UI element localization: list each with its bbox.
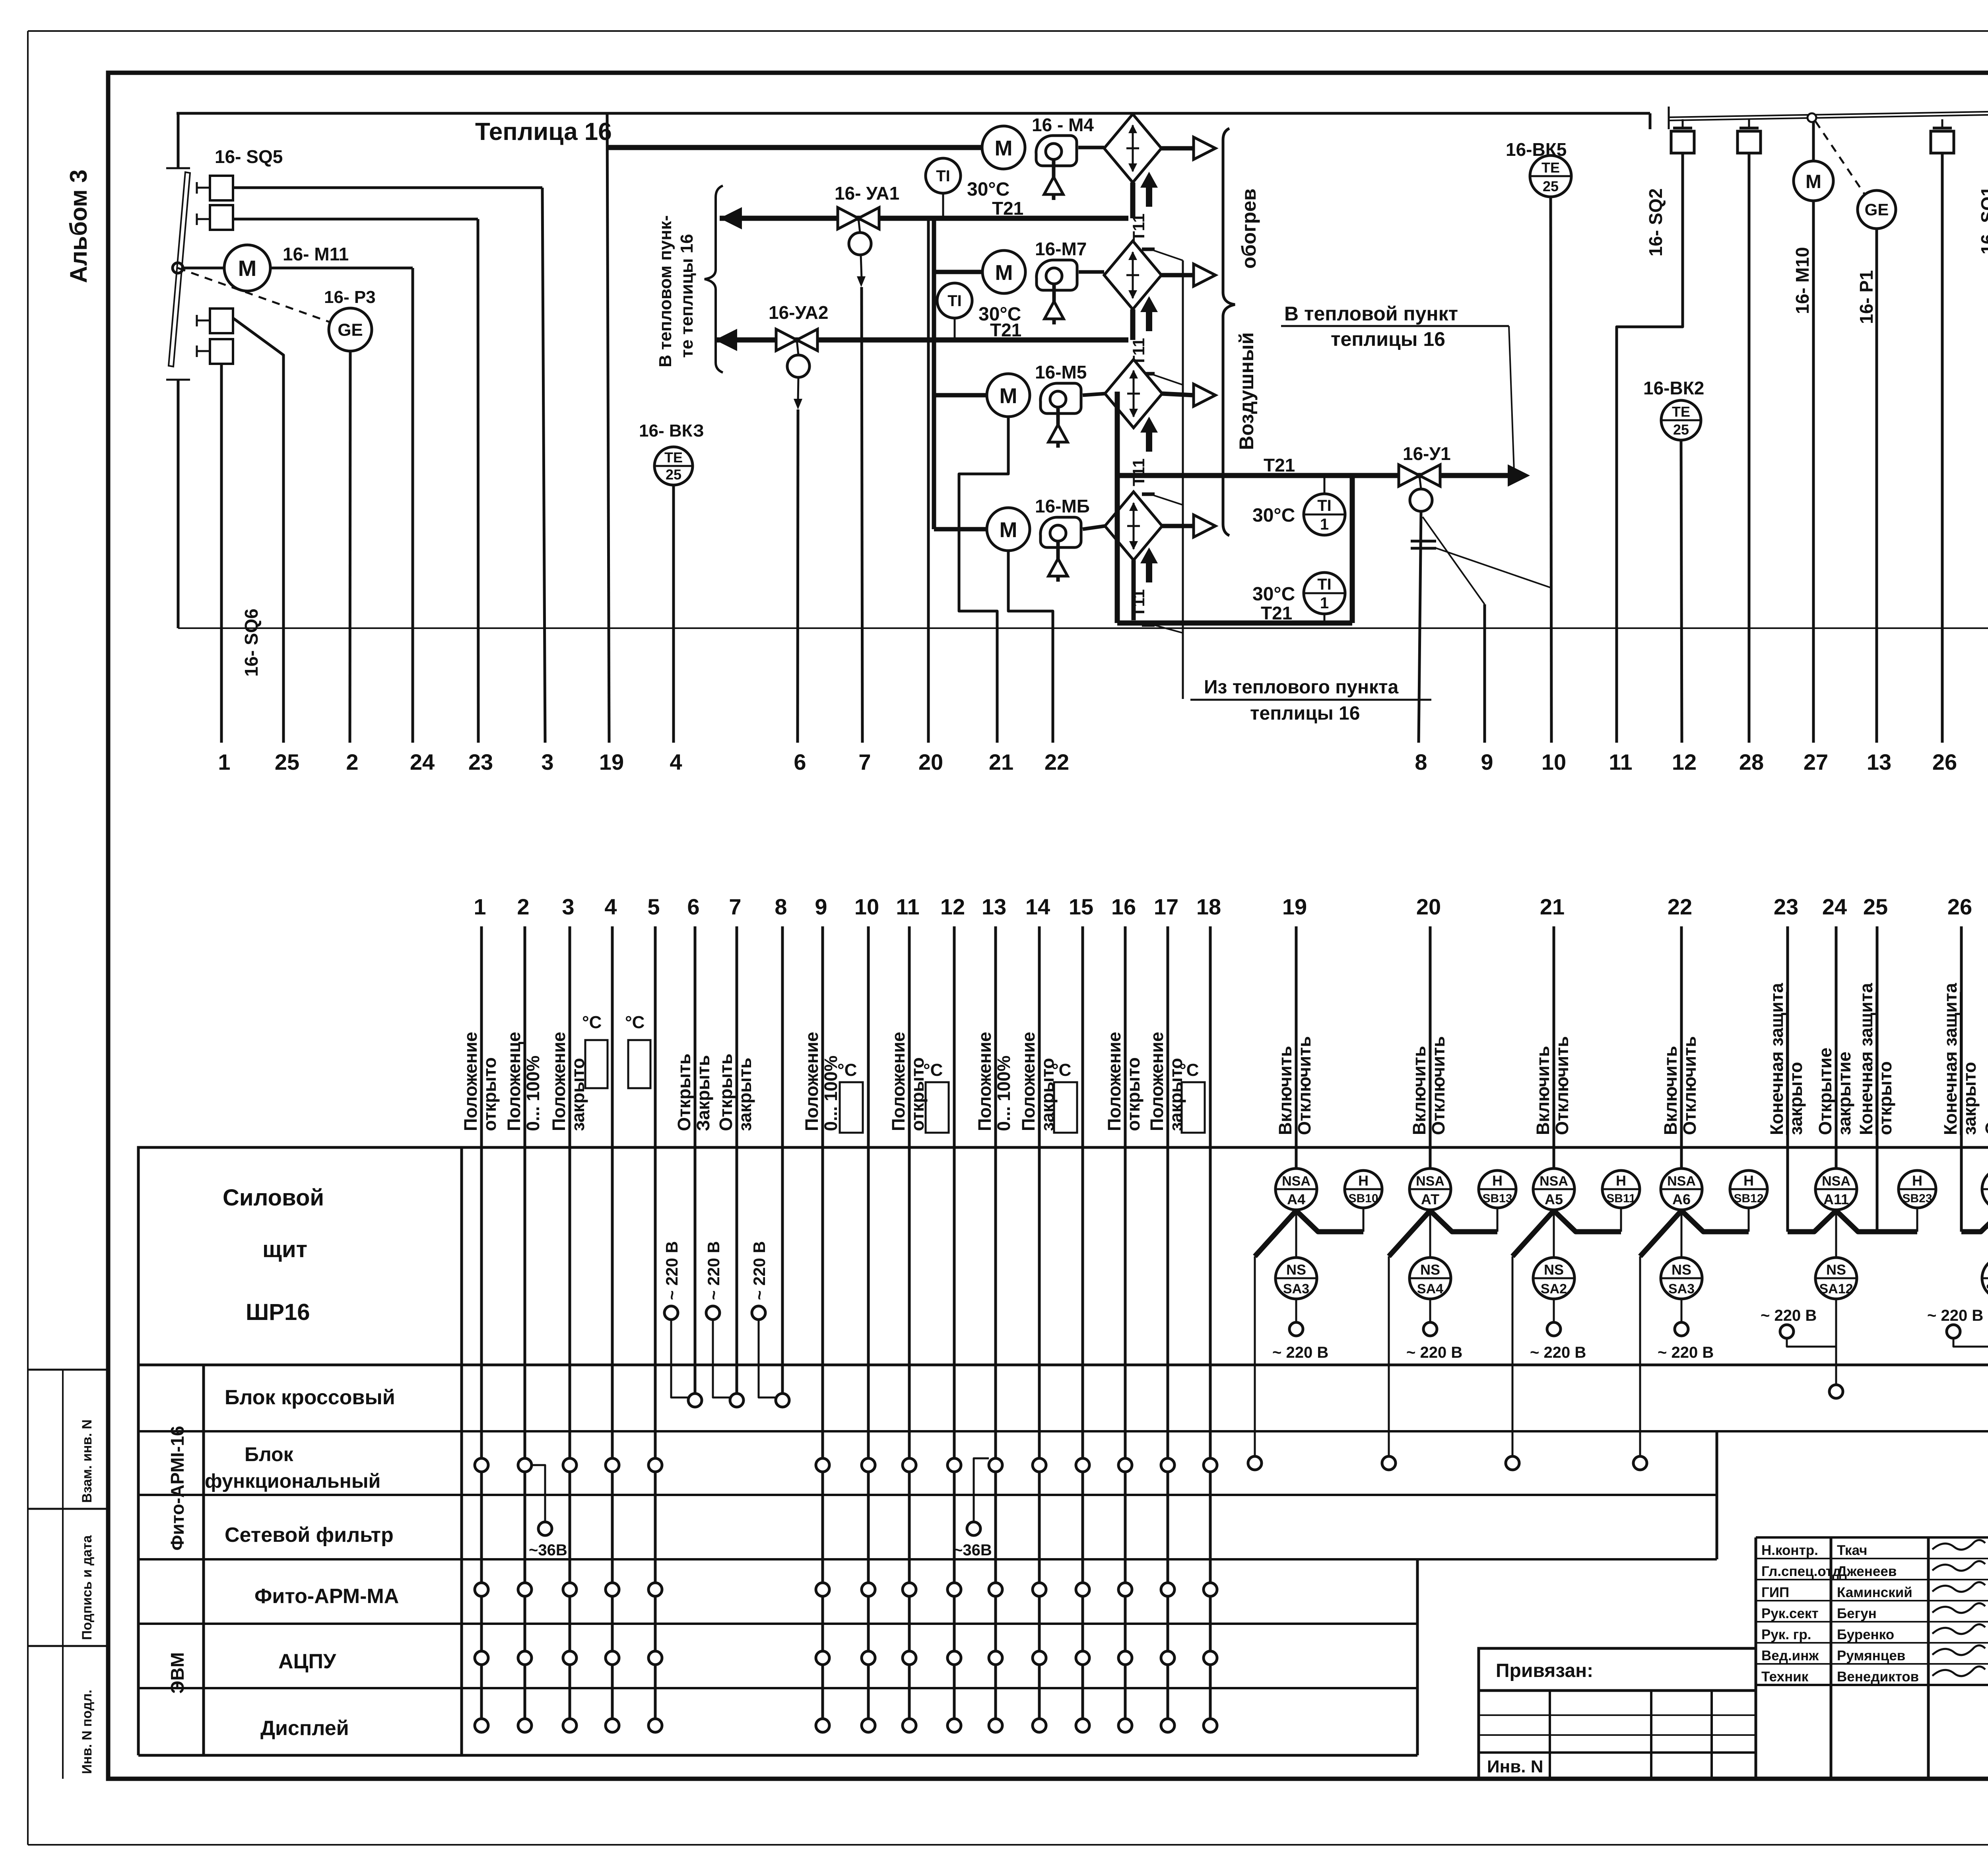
svg-text:Воздушный: Воздушный [1235, 332, 1258, 450]
contact 2 / Фито-АРМ-МА [518, 1583, 532, 1596]
link to switch NS (group 20) [1429, 1211, 1431, 1258]
svg-text:ТI: ТI [1317, 576, 1332, 593]
svg-text:4: 4 [670, 749, 682, 774]
pipe Т21 of М4 with valve УА1 [1130, 182, 1136, 218]
svg-text:Положенце: Положенце [504, 1032, 524, 1131]
contact group 24 / кроссовый [1829, 1385, 1843, 1398]
contact line 7 / кроссовый [730, 1394, 744, 1407]
svg-text:3: 3 [562, 894, 574, 919]
contact line 6 / кроссовый [688, 1394, 702, 1407]
svg-text:2: 2 [346, 749, 358, 774]
svg-text:16-М5: 16-М5 [1035, 362, 1087, 382]
svg-text:~ 220 В: ~ 220 В [1530, 1344, 1586, 1361]
svg-text:Бегун: Бегун [1837, 1606, 1877, 1621]
stem TI-1 upper [1324, 476, 1326, 494]
callout underline [1281, 325, 1509, 327]
contact 1 / Дисплей [475, 1719, 488, 1732]
selector NSA/А5 (group 21) [1533, 1168, 1574, 1210]
wire У1 to terminal 8 [1419, 511, 1421, 743]
svg-text:Техник: Техник [1761, 1669, 1809, 1685]
contact 15 / Фито-АРМ-МА [1076, 1583, 1089, 1596]
signal wire 11 [908, 926, 911, 1725]
heating medium Т11 arrow of МБ [1140, 547, 1158, 563]
220V circle (group 19) [1289, 1322, 1303, 1336]
wire М5 to terminal 21 [959, 417, 1008, 743]
switch NS down wire (group 24) [1835, 1299, 1837, 1385]
svg-text:~ 220 В: ~ 220 В [1406, 1344, 1462, 1361]
svg-text:16-МБ: 16-МБ [1035, 496, 1090, 516]
wire M11 to line 24 [270, 267, 413, 270]
svg-text:Блок кроссовый: Блок кроссовый [225, 1386, 395, 1409]
stub lamp SB12 [1748, 1208, 1750, 1232]
sig table column [1830, 1537, 1833, 1779]
table right edge (lower rows) [1416, 1559, 1419, 1755]
svg-text:А5: А5 [1545, 1191, 1563, 1207]
contact 17 / Дисплей [1161, 1719, 1175, 1732]
drop wire group 22 [1639, 1256, 1641, 1456]
contact 5 / functional block [648, 1458, 662, 1472]
svg-text:В тепловой пункт: В тепловой пункт [1284, 303, 1458, 325]
greenhouse right end tick [1649, 113, 1652, 129]
drop wire group 19 [1254, 1256, 1256, 1456]
contact 10 / Дисплей [862, 1719, 875, 1732]
contact 16 / Дисплей [1118, 1719, 1132, 1732]
fan of heater 16-М7 [1037, 260, 1077, 290]
contact 3 / Фито-АРМ-МА [563, 1583, 577, 1596]
left margin stamp divider 2 [28, 1508, 108, 1510]
svg-text:Гл.спец.отд: Гл.спец.отд [1761, 1564, 1841, 1579]
contact 13 / functional block [989, 1458, 1002, 1472]
table row: Блок кроссовый [138, 1430, 1988, 1432]
solenoid valve 16-УА1 [838, 208, 858, 229]
contact group 22 / functional block [1633, 1456, 1647, 1470]
contact 2 / АЦПУ [518, 1651, 532, 1665]
stub 220V (group 22) [1681, 1299, 1683, 1322]
fan of heater 16-М4 [1036, 136, 1077, 166]
roof1 left tick [1668, 107, 1670, 129]
link to switch NS (group 22) [1681, 1211, 1683, 1258]
thick link vertex to drop wire (group 21) [1512, 1211, 1554, 1256]
svg-text:1: 1 [1320, 594, 1329, 612]
svg-text:Н: Н [1492, 1172, 1503, 1189]
drop wire group 21 [1512, 1256, 1514, 1456]
feed stub М5 [934, 393, 987, 398]
svg-text:М: М [1000, 384, 1017, 408]
pipe Т21 of М7 with valve УА2 [1130, 309, 1136, 340]
label column divider 2 [460, 1147, 463, 1755]
flow arrow to heat point (М7) [715, 329, 737, 351]
svg-text:8: 8 [1415, 749, 1427, 774]
brace: to heat point group [705, 186, 723, 373]
svg-text:закрытие: закрытие [1834, 1052, 1854, 1135]
contact 18 / Дисплей [1204, 1719, 1217, 1732]
svg-text:открыто: открыто [1875, 1061, 1895, 1135]
svg-text:Отключить: Отключить [1552, 1036, 1572, 1135]
220V circle (group 24) [1780, 1325, 1794, 1338]
svg-text:9: 9 [815, 894, 827, 919]
sig table column [1755, 1537, 1757, 1779]
contact 18 / АЦПУ [1204, 1651, 1217, 1665]
contact 17 / Фито-АРМ-МА [1161, 1583, 1175, 1596]
feed stub М7 [934, 270, 982, 274]
heating medium Т11 arrow of М5 [1140, 417, 1158, 433]
svg-text:16- ВКЗ: 16- ВКЗ [639, 421, 704, 441]
contact 14 / АЦПУ [1033, 1651, 1046, 1665]
contact 9 / Фито-АРМ-МА [816, 1583, 829, 1596]
paper border bottom [28, 1844, 1988, 1846]
thick link vertex to lamp SB13 [1430, 1211, 1497, 1232]
svg-text:Н: Н [1912, 1172, 1922, 1189]
signal wire 26 [1960, 926, 1963, 1232]
greenhouse left wall lower segment [177, 380, 180, 628]
analog input box line 5 [628, 1040, 650, 1088]
valve УА1 stem [858, 218, 860, 233]
svg-text:11: 11 [896, 894, 919, 919]
svg-text:20: 20 [1416, 894, 1441, 919]
switch NS/SA4 [1409, 1258, 1451, 1299]
Т11 collector line down [1182, 260, 1184, 699]
svg-text:SB10: SB10 [1348, 1192, 1378, 1205]
thermometer TI of М4 [926, 158, 961, 193]
svg-text:10: 10 [854, 894, 879, 919]
contact 4 / functional block [606, 1458, 619, 1472]
greenhouse Теплица 16 top wall [177, 112, 1650, 115]
callout underline 2 [1190, 699, 1431, 701]
svg-text:Н: Н [1616, 1172, 1626, 1189]
limit switch 16-SQ5 box 2 [196, 214, 198, 225]
svg-text:0... 100%: 0... 100% [523, 1056, 543, 1131]
contact 13 / АЦПУ [989, 1651, 1002, 1665]
220V circle (group 27) [1947, 1325, 1960, 1338]
lamp Н/SB10 [1345, 1170, 1382, 1208]
limit switch 16-SQ6 box 1 [196, 315, 198, 326]
stem TI М4 [942, 193, 944, 218]
left margin stamp divider 1 [28, 1369, 108, 1371]
svg-text:Положение: Положение [888, 1032, 909, 1131]
svg-text:ТЕ: ТЕ [664, 449, 683, 466]
wire box B down [1748, 153, 1751, 223]
pipe Т21 trunk (М5/МБ rows) [1115, 392, 1120, 623]
thick link vertex to drop wire (group 19) [1255, 1211, 1296, 1256]
svg-text:закрыто: закрыто [1037, 1058, 1058, 1131]
svg-text:Дженеев: Дженеев [1837, 1564, 1897, 1579]
signature scribble 5 [1932, 1645, 1985, 1655]
thick bus into NSA А11 vertex [1788, 1211, 1836, 1232]
svg-text:14: 14 [1025, 894, 1050, 919]
svg-text:Положение: Положение [1147, 1032, 1167, 1131]
dashed link node to 16-Р1 [1815, 121, 1866, 196]
svg-text:°С: °С [625, 1013, 645, 1032]
thick bus into NSA А10 vertex [1961, 1211, 1988, 1232]
contact 12 / Фито-АРМ-МА [947, 1583, 961, 1596]
table left edge [137, 1365, 140, 1755]
svg-text:ТI: ТI [936, 167, 950, 185]
heat exchanger (shutters) of М4 [1104, 114, 1161, 182]
svg-text:М: М [238, 256, 257, 281]
contact 18 / functional block [1204, 1458, 1217, 1472]
signature scribble 6 [1932, 1666, 1985, 1676]
svg-text:16- SQ1: 16- SQ1 [1977, 186, 1988, 254]
signal wire 16 [1124, 926, 1127, 1725]
left margin stamp column line [62, 1370, 64, 1779]
leader Т11 М7 to collector [1154, 375, 1183, 385]
svg-text:ТI: ТI [1317, 497, 1332, 514]
svg-text:Н.контр.: Н.контр. [1761, 1543, 1818, 1558]
svg-text:Рук.сект: Рук.сект [1761, 1606, 1819, 1621]
thermometer TI-1 upper [1304, 494, 1345, 535]
svg-text:~ 220 В: ~ 220 В [1272, 1344, 1328, 1361]
limit switch box B [1748, 119, 1750, 128]
contact 1 / functional block [475, 1458, 488, 1472]
stub lamp SB13 [1497, 1208, 1499, 1232]
wire УА2 down [798, 377, 798, 401]
signal wire 18 [1209, 926, 1212, 1725]
svg-text:Дисплей: Дисплей [260, 1717, 349, 1740]
duct М4 to outlet [1161, 146, 1194, 151]
thick link vertex to drop wire (group 20) [1389, 1211, 1430, 1256]
svg-text:26: 26 [1932, 749, 1957, 774]
motor 16-МБ [987, 508, 1030, 551]
wire SQ5.2 to terminal 23 [478, 219, 478, 743]
capacitor mark upper line [1411, 540, 1436, 543]
tick [166, 167, 190, 169]
heat exchanger of М5 [1105, 359, 1162, 428]
svg-text:SA2: SA2 [1541, 1281, 1567, 1297]
svg-text:Фито-АРМI-16: Фито-АРМI-16 [167, 1426, 188, 1551]
contact line 8 / кроссовый [776, 1394, 789, 1407]
svg-text:SA10: SA10 [1986, 1281, 1988, 1297]
signal wire 12 [953, 926, 956, 1725]
svg-text:13: 13 [1867, 749, 1891, 774]
svg-text:SB12: SB12 [1734, 1192, 1763, 1205]
signal wire 25 [1876, 926, 1879, 1232]
svg-text:Открытие: Открытие [1815, 1048, 1835, 1135]
svg-text:закрыто: закрыто [1959, 1062, 1980, 1135]
svg-text:Из теплового пункта: Из теплового пункта [1204, 677, 1398, 698]
svg-text:1: 1 [1320, 516, 1329, 533]
svg-text:6: 6 [687, 894, 699, 919]
wire SQ6.2 to terminal 1 [220, 364, 223, 743]
svg-text:GЕ: GЕ [338, 320, 363, 340]
svg-text:SB11: SB11 [1606, 1192, 1635, 1205]
svg-text:Отключить: Отключить [1294, 1036, 1314, 1135]
svg-text:открыто: открыто [1123, 1057, 1143, 1131]
svg-text:Включить: Включить [1275, 1046, 1295, 1135]
signature scribble 0 [1932, 1540, 1985, 1549]
wire fan to heat exchanger М5 [1083, 394, 1105, 395]
air outlet of МБ [1194, 515, 1215, 537]
svg-text:24: 24 [1822, 894, 1847, 919]
svg-text:10: 10 [1541, 749, 1566, 774]
svg-text:19: 19 [1282, 894, 1307, 919]
svg-text:закрыто: закрыто [1786, 1062, 1806, 1135]
svg-text:26: 26 [1947, 894, 1972, 919]
signature scribble 1 [1932, 1561, 1985, 1570]
contact 2 / functional block [518, 1458, 532, 1472]
svg-text:~ 220 В: ~ 220 В [1761, 1307, 1817, 1324]
wire SQ6.1 to terminal 25 [233, 318, 283, 743]
svg-text:16- М11: 16- М11 [283, 244, 349, 264]
thermometer TI-1 lower [1304, 573, 1345, 614]
contact 13 / Дисплей [989, 1719, 1002, 1732]
roof line 1b [1669, 111, 1988, 117]
svg-text:SA3: SA3 [1283, 1281, 1309, 1297]
leader Т11 М5 to collector [1154, 495, 1183, 505]
stub 220V (group 19) [1295, 1299, 1297, 1322]
220V circle (group 22) [1675, 1322, 1688, 1336]
limit switch 16-SQ2 box A [1682, 119, 1684, 128]
contact group 19 / functional block [1248, 1456, 1262, 1470]
svg-text:Положение: Положение [802, 1032, 822, 1131]
wire УА2 to terminal 6 [798, 410, 798, 743]
svg-text:30°С: 30°С [1252, 584, 1295, 605]
contact 1 / Фито-АРМ-МА [475, 1583, 488, 1596]
fan of heater 16-МБ [1041, 517, 1081, 547]
220V circle (group 21) [1547, 1322, 1561, 1336]
heat exchanger of МБ [1105, 492, 1162, 560]
svg-text:Положение: Положение [1104, 1032, 1124, 1131]
svg-text:12: 12 [1672, 749, 1697, 774]
heating medium Т11 arrow of М7 [1140, 296, 1158, 312]
svg-text:NSA: NSA [1822, 1174, 1850, 1189]
signal wire 22 [1680, 926, 1683, 1169]
contact 11 / Фито-АРМ-МА [903, 1583, 916, 1596]
svg-text:Подпись и дата: Подпись и дата [80, 1535, 95, 1640]
drop wire group 20 [1388, 1256, 1390, 1456]
selector NSA/АТ (group 20) [1409, 1168, 1451, 1210]
valve У1 stem [1419, 476, 1421, 489]
switch NS/SA12 [1815, 1258, 1857, 1299]
svg-text:16- SQ6: 16- SQ6 [241, 609, 262, 677]
svg-text:ЭВМ: ЭВМ [167, 1652, 188, 1694]
svg-text:теплицы 16: теплицы 16 [1331, 328, 1445, 350]
contact 16 / АЦПУ [1118, 1651, 1132, 1665]
svg-text:25: 25 [1543, 178, 1559, 194]
svg-text:те теплицы 16: те теплицы 16 [677, 234, 697, 358]
valve У1 actuator [1410, 489, 1432, 511]
roof line 1a [1669, 115, 1988, 120]
svg-text:16-М7: 16-М7 [1035, 239, 1087, 259]
signal wire 13 [994, 926, 997, 1725]
svg-text:Сетевой фильтр: Сетевой фильтр [225, 1524, 394, 1547]
stem TI М7 [954, 318, 956, 340]
callout leader to Т21 [1509, 326, 1514, 471]
contact 10 / functional block [862, 1458, 875, 1472]
svg-text:SA4: SA4 [1417, 1281, 1443, 1297]
contact 4 / Фито-АРМ-МА [606, 1583, 619, 1596]
svg-text:щит: щит [262, 1236, 307, 1262]
down arrow УА2 [794, 399, 802, 410]
signal wire 14 [1038, 926, 1041, 1725]
svg-text:NS: NS [1672, 1262, 1691, 1278]
svg-text:~36В: ~36В [529, 1541, 567, 1559]
wire УА1 to terminal 7 [862, 287, 862, 743]
svg-text:25: 25 [666, 466, 681, 483]
contact 11 / Дисплей [903, 1719, 916, 1732]
svg-text:Т21: Т21 [990, 320, 1021, 340]
svg-text:3: 3 [541, 749, 553, 774]
contact 11 / functional block [903, 1458, 916, 1472]
svg-text:Положение: Положение [1018, 1032, 1039, 1131]
wire Р3 to terminal 2 [350, 351, 350, 743]
signal wire 9 [821, 926, 824, 1725]
wire TI М4 to terminal 20 [927, 218, 930, 743]
signal wire 10 [867, 926, 870, 1725]
contact 12 / Дисплей [947, 1719, 961, 1732]
wire Р1 to terminal 13 [1875, 229, 1878, 743]
duct М7 to outlet [1161, 273, 1194, 278]
contact group 21 / functional block [1506, 1456, 1519, 1470]
svg-text:23: 23 [468, 749, 493, 774]
wire M11 to terminal 24 [412, 268, 414, 743]
contact 5 / Дисплей [648, 1719, 662, 1732]
svg-text:~ 220 В: ~ 220 В [750, 1241, 769, 1300]
svg-text:5: 5 [647, 894, 660, 919]
220V wire to line 6 [671, 1320, 688, 1397]
valve УА1 actuator [849, 233, 871, 255]
svg-text:16-ВК2: 16-ВК2 [1643, 378, 1704, 398]
wire 19 from greenhouse wall [607, 113, 609, 743]
svg-text:NS: NS [1420, 1262, 1440, 1278]
contact 9 / functional block [816, 1458, 829, 1472]
signal wire 7 [736, 926, 738, 1400]
svg-text:Конечная защита: Конечная защита [1767, 982, 1787, 1135]
motor 16-М4 [982, 126, 1025, 169]
contact 18 / Фито-АРМ-МА [1204, 1583, 1217, 1596]
lamp Н/SB13 [1479, 1170, 1516, 1208]
svg-text:NS: NS [1826, 1262, 1846, 1278]
svg-text:NSA: NSA [1416, 1174, 1444, 1189]
wire ВК5 to terminal 10 [1551, 197, 1551, 743]
220V supply circle (line 8) [752, 1306, 765, 1320]
svg-text:21: 21 [1540, 894, 1565, 919]
220V wire (group 27) [1953, 1338, 1988, 1347]
contact 14 / Фито-АРМ-МА [1033, 1583, 1046, 1596]
table row: Блок функциональный [138, 1494, 1717, 1496]
svg-text:16- SQ2: 16- SQ2 [1645, 188, 1666, 256]
svg-text:ТI: ТI [947, 292, 962, 310]
motor 16-М7 [982, 250, 1025, 293]
svg-text:16 - М4: 16 - М4 [1032, 115, 1094, 135]
heat exchanger of М7 [1104, 241, 1161, 309]
svg-text:16-У1: 16-У1 [1403, 443, 1451, 464]
analog input box line 12 [926, 1082, 949, 1133]
svg-text:функциональный: функциональный [205, 1470, 381, 1492]
contact 15 / functional block [1076, 1458, 1089, 1472]
signal wire 4 [611, 926, 614, 1725]
title block: Привязан box [1479, 1648, 1756, 1779]
220V wire to line 7 [713, 1320, 730, 1397]
table rows: Фито-АРМ-МА / АЦПУ / Дисплей [138, 1623, 1417, 1625]
air outlet of М4 [1194, 137, 1215, 159]
contact 11 / АЦПУ [903, 1651, 916, 1665]
svg-text:18: 18 [1196, 894, 1221, 919]
svg-text:16-УА2: 16-УА2 [769, 302, 828, 323]
svg-text:22: 22 [1044, 749, 1069, 774]
svg-text:А6: А6 [1672, 1191, 1691, 1207]
title block: signature table [1756, 1536, 1988, 1539]
left margin stamp divider 3 [28, 1645, 108, 1647]
svg-text:16- SQ5: 16- SQ5 [215, 146, 283, 167]
stem TI-1 lower [1324, 614, 1326, 623]
link to switch NS (group 19) [1295, 1211, 1297, 1258]
table right edge (middle rows) [1716, 1431, 1718, 1559]
contact 10 / Фито-АРМ-МА [862, 1583, 875, 1596]
contact 12 / functional block [947, 1458, 961, 1472]
air duct feed to heater 16-М4 [607, 145, 982, 150]
analog input box line 15 [1054, 1082, 1077, 1133]
svg-text:~36В: ~36В [953, 1541, 992, 1559]
